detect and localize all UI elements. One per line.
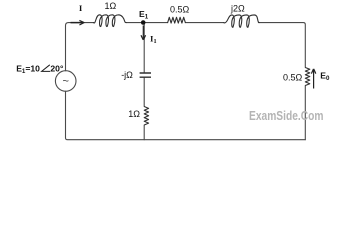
svg-text:E1=10: E1=10 — [16, 63, 40, 74]
wire mid branch capacitor to resistor to bottom — [143, 77, 145, 140]
node dot E1 — [141, 20, 146, 25]
arrow I1 down — [141, 26, 146, 40]
resistor 0.5 ohm horizontal zigzag — [168, 17, 186, 23]
svg-text:ExamSide.Com: ExamSide.Com — [249, 109, 324, 123]
inductor 1 ohm coil — [93, 15, 127, 27]
resistor 0.5 ohm vertical right zigzag — [305, 68, 310, 86]
svg-text:E1: E1 — [139, 9, 149, 20]
wire right below resistor — [304, 86, 306, 140]
wire bottom rail — [66, 91, 306, 140]
capacitor -j ohm plates — [140, 73, 151, 77]
wire coil2 to top-right corner — [258, 23, 305, 68]
wire mid branch node to capacitor — [143, 23, 145, 73]
svg-text:I1: I1 — [150, 34, 157, 45]
wire top-left corner — [66, 23, 94, 71]
resistor 1 ohm vertical mid zigzag — [144, 107, 148, 126]
wire coil1 to resistor — [126, 22, 167, 24]
arrow E0 up — [311, 69, 315, 89]
wire resistor to coil2 — [186, 22, 224, 24]
arrow I on top wire — [71, 20, 85, 25]
svg-text:1Ω: 1Ω — [128, 109, 140, 119]
svg-text:~: ~ — [62, 76, 68, 88]
source circle — [55, 71, 76, 92]
svg-text:0.5Ω: 0.5Ω — [170, 5, 190, 15]
svg-text:20°: 20° — [50, 63, 64, 73]
svg-text:I: I — [79, 3, 83, 13]
angle symbol — [42, 65, 51, 72]
svg-text:j2Ω: j2Ω — [230, 4, 245, 14]
svg-text:-jΩ: -jΩ — [121, 70, 133, 80]
inductor j2 ohm coil — [223, 15, 259, 27]
svg-text:E0: E0 — [320, 70, 330, 81]
svg-text:1Ω: 1Ω — [105, 1, 117, 11]
svg-text:0.5Ω: 0.5Ω — [283, 72, 303, 82]
